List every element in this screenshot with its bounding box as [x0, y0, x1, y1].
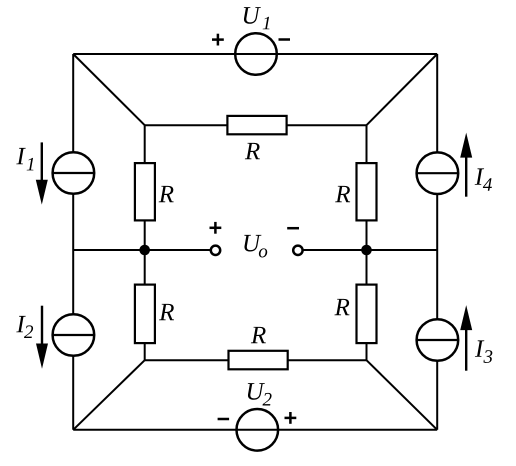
arrow I1 — [36, 142, 48, 204]
wire inner right vertical bottom — [366, 343, 368, 360]
wire mid line right — [303, 249, 437, 251]
plus sign output — [210, 222, 222, 234]
plus sign U2 — [285, 412, 297, 424]
wire inner top right — [287, 124, 367, 126]
label I3 — [475, 340, 484, 356]
label R bottom — [251, 327, 266, 343]
arrow I3 — [460, 305, 472, 371]
wire inner left vertical top — [144, 125, 146, 163]
plus sign U1 — [212, 34, 224, 46]
minus sign U2 — [218, 418, 230, 421]
label R right upper — [335, 186, 350, 202]
resistor R top — [227, 116, 286, 134]
wire right edge upper — [436, 54, 438, 152]
label U1 — [244, 7, 261, 24]
label R top — [245, 143, 260, 159]
resistor R left upper — [135, 163, 155, 220]
wire diagonal bottom-left — [73, 360, 145, 430]
current source I3 — [417, 319, 459, 361]
current source I4 — [417, 152, 459, 194]
label I2 — [16, 316, 25, 332]
wire inner right vertical top — [366, 125, 368, 163]
label U2 — [248, 383, 265, 400]
wire right edge middle — [436, 194, 438, 319]
minus sign output — [287, 227, 299, 230]
resistor R right lower — [357, 285, 377, 344]
wire left edge lower — [72, 356, 74, 430]
wire bottom edge — [73, 429, 437, 431]
label Uo — [244, 235, 261, 252]
arrow I4 — [460, 133, 472, 197]
label I1 — [16, 148, 25, 164]
wire inner right vertical middle — [366, 220, 368, 284]
wire inner left vertical middle — [144, 220, 146, 284]
wire inner top left — [145, 124, 228, 126]
wire inner bottom right — [288, 359, 367, 361]
voltage source U2 — [236, 409, 278, 451]
resistor R right upper — [357, 163, 377, 220]
wire left edge upper — [72, 54, 74, 152]
label R left upper — [159, 186, 174, 202]
wire inner left vertical bottom — [144, 343, 146, 360]
terminal left — [211, 246, 220, 255]
label R right lower — [334, 299, 349, 315]
voltage source U1 — [235, 33, 277, 75]
wire mid line left — [73, 249, 210, 251]
node junction right — [361, 245, 372, 256]
label I4 — [475, 168, 484, 184]
node junction left — [139, 245, 150, 256]
label R left lower — [159, 304, 174, 320]
arrow I2 — [36, 306, 48, 369]
current source I2 — [53, 314, 95, 356]
wire left edge middle — [72, 194, 74, 314]
resistor R bottom — [229, 351, 288, 370]
wire diagonal top-left — [73, 54, 145, 125]
wire inner bottom left — [145, 359, 229, 361]
resistor R left lower — [135, 285, 155, 344]
wire top edge — [73, 53, 437, 55]
wire right edge lower — [436, 361, 438, 430]
wire diagonal top-right — [367, 54, 438, 125]
terminal right — [293, 246, 302, 255]
current source I1 — [53, 152, 95, 194]
minus sign U1 — [279, 38, 291, 41]
wire diagonal bottom-right — [367, 360, 438, 430]
